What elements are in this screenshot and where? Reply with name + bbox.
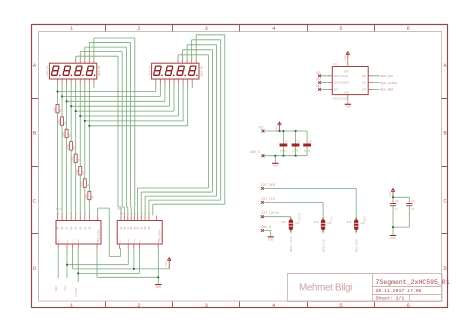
svg-text:CLK: CLK [66, 238, 69, 243]
svg-text:D: D [33, 266, 36, 272]
svg-text:EXT_CLK: EXT_CLK [262, 197, 275, 201]
svg-text:VCC: VCC [259, 125, 265, 129]
svg-text:LATCH: LATCH [75, 288, 78, 297]
svg-text:MCU_SER: MCU_SER [381, 89, 394, 92]
svg-text:CLK: CLK [331, 216, 334, 221]
svg-text:GP2: GP2 [362, 89, 367, 92]
svg-text:GP3: GP3 [316, 85, 321, 88]
svg-text:+5V: +5V [165, 261, 168, 267]
svg-text:GND: GND [96, 238, 99, 243]
svg-text:RCK: RCK [77, 238, 80, 243]
svg-text:MCU_CLK: MCU_CLK [381, 75, 394, 78]
svg-text:1: 1 [70, 26, 73, 32]
svg-text:+5V: +5V [389, 192, 392, 198]
svg-text:GND: GND [157, 238, 160, 243]
svg-text:220R: 220R [58, 119, 61, 125]
svg-text:GND: GND [345, 106, 351, 109]
svg-text:6: 6 [407, 26, 410, 32]
svg-text:10p: 10p [411, 200, 416, 203]
svg-text:R11: R11 [281, 221, 286, 224]
svg-text:220R: 220R [62, 131, 65, 137]
svg-text:GP5/CLKIN: GP5/CLKIN [334, 74, 348, 78]
svg-text:220R: 220R [85, 193, 88, 199]
svg-text:GND_B: GND_B [262, 225, 272, 229]
svg-text:IC3: IC3 [56, 208, 61, 211]
svg-text:2: 2 [137, 26, 140, 32]
svg-text:EXT_SER: EXT_SER [262, 183, 275, 187]
svg-text:RCK: RCK [138, 238, 141, 243]
svg-text:CLK: CLK [64, 285, 67, 291]
svg-text:7Segment_2xHC595_01: 7Segment_2xHC595_01 [376, 279, 450, 286]
svg-text:1: 1 [70, 303, 73, 309]
svg-text:MCU_SER: MCU_SER [355, 239, 358, 252]
svg-text:GP4/CLKOUT: GP4/CLKOUT [334, 81, 350, 85]
svg-text:EXT_LATCH: EXT_LATCH [262, 211, 279, 215]
svg-text:+5V: +5V [276, 125, 279, 131]
svg-text:100n: 100n [280, 149, 287, 152]
svg-text:GND: GND [268, 238, 274, 241]
svg-text:MCU_LATCH: MCU_LATCH [290, 236, 293, 252]
svg-text:SER: SER [118, 238, 121, 243]
svg-text:VCC: VCC [133, 238, 136, 243]
svg-text:220R: 220R [81, 181, 84, 187]
svg-text:GND: GND [273, 165, 279, 168]
svg-text:CLK: CLK [127, 238, 130, 243]
svg-text:3: 3 [205, 303, 208, 309]
svg-text:100n: 100n [304, 149, 311, 152]
svg-text:Sheet: 1/1: Sheet: 1/1 [376, 296, 405, 302]
svg-text:GP5: GP5 [316, 72, 321, 75]
svg-text:VSS: VSS [344, 92, 349, 95]
svg-text:HDSP-B0: HDSP-B0 [98, 65, 101, 76]
svg-text:220R: 220R [72, 156, 75, 162]
svg-text:GND_A: GND_A [250, 150, 260, 154]
svg-text:+5V: +5V [344, 55, 347, 61]
svg-text:4: 4 [272, 26, 275, 32]
svg-text:GND: GND [390, 237, 396, 240]
svg-text:GP3: GP3 [334, 89, 339, 92]
svg-text:6: 6 [407, 303, 410, 309]
svg-text:C8: C8 [395, 208, 399, 211]
svg-text:R12: R12 [314, 221, 319, 224]
svg-text:220R: 220R [53, 106, 56, 112]
svg-text:SER: SER [364, 216, 367, 221]
svg-text:C3: C3 [308, 140, 312, 143]
svg-text:C9: C9 [411, 208, 415, 211]
svg-text:HDSP-B0: HDSP-B0 [200, 65, 203, 76]
svg-text:IC1: IC1 [333, 63, 338, 66]
svg-text:SER: SER [55, 285, 58, 291]
svg-text:5: 5 [339, 303, 342, 309]
svg-text:GP0: GP0 [362, 75, 367, 78]
svg-text:220R: 220R [76, 168, 79, 174]
svg-text:4: 4 [272, 303, 275, 309]
svg-text:VDD: VDD [344, 70, 349, 73]
svg-text:3: 3 [205, 26, 208, 32]
svg-text:2: 2 [137, 303, 140, 309]
svg-text:IC4: IC4 [117, 208, 122, 211]
svg-text:R13: R13 [347, 221, 352, 224]
svg-text:GP4: GP4 [316, 78, 321, 81]
svg-text:PIC12F509: PIC12F509 [333, 98, 348, 101]
svg-text:MCU_LATCH: MCU_LATCH [381, 82, 397, 85]
svg-text:D: D [443, 266, 446, 272]
svg-text:Mehmet Bilgi: Mehmet Bilgi [299, 283, 352, 294]
svg-text:MCU_CLK: MCU_CLK [322, 239, 325, 252]
svg-text:C2: C2 [297, 140, 301, 143]
svg-text:GP1: GP1 [362, 82, 367, 85]
svg-text:220R: 220R [67, 144, 70, 150]
svg-text:C1: C1 [285, 140, 289, 143]
svg-text:GND: GND [156, 286, 162, 289]
svg-text:SER: SER [57, 238, 60, 243]
svg-text:LATCH: LATCH [298, 213, 301, 222]
svg-text:100n: 100n [292, 149, 299, 152]
svg-text:C: C [443, 198, 446, 204]
svg-text:5: 5 [339, 26, 342, 32]
svg-text:C: C [33, 198, 36, 204]
svg-text:CA56-12: CA56-12 [148, 65, 151, 76]
svg-text:10p: 10p [395, 200, 400, 203]
svg-text:VCC: VCC [72, 238, 75, 243]
svg-text:20.11.2017 17:06: 20.11.2017 17:06 [376, 288, 422, 294]
svg-text:CA56-12: CA56-12 [46, 65, 49, 76]
